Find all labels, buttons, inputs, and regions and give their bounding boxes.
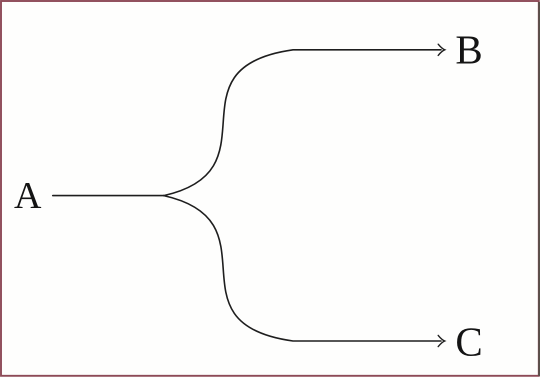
svg-text:A: A (14, 175, 42, 217)
svg-text:C: C (455, 318, 482, 364)
svg-text:B: B (455, 26, 482, 72)
